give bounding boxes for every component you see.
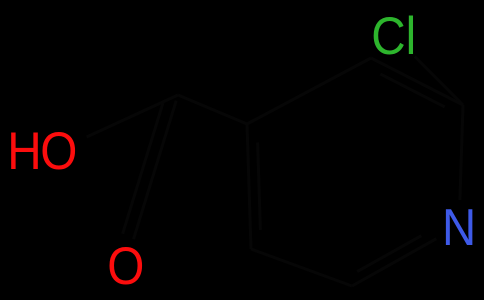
wire: bond C2=C3 inner	[380, 74, 444, 107]
wire: bond C2-N1	[460, 105, 463, 200]
svg-text:N: N	[442, 199, 476, 256]
node N (pyridine nitrogen label)	[442, 199, 476, 256]
wire: bond C3-C4	[247, 58, 371, 124]
wire: bond C*=O main	[134, 101, 177, 240]
wire: bond C5-C6	[251, 249, 352, 286]
wire: bond C*-OH	[87, 95, 178, 137]
wire: bond C4=C5 main	[247, 124, 251, 249]
wire: bond C4-C*	[178, 95, 247, 124]
wire: bond C4=C5 inner	[258, 142, 261, 230]
svg-text:HO: HO	[7, 120, 76, 180]
svg-text:Cl: Cl	[371, 6, 416, 66]
wire: bond C6=N1 main	[352, 239, 436, 286]
wire: bond C6=N1 inner	[357, 236, 421, 272]
wire: bond Cl-C2	[415, 57, 463, 106]
node Cl (chlorine label)	[371, 6, 416, 66]
node HO (hydroxyl label)	[7, 120, 76, 180]
node O (carbonyl oxygen label)	[107, 236, 144, 296]
wire: bond C*=O twin	[123, 103, 163, 234]
wire: bond C2=C3 main	[371, 58, 463, 105]
svg-text:O: O	[107, 236, 144, 296]
